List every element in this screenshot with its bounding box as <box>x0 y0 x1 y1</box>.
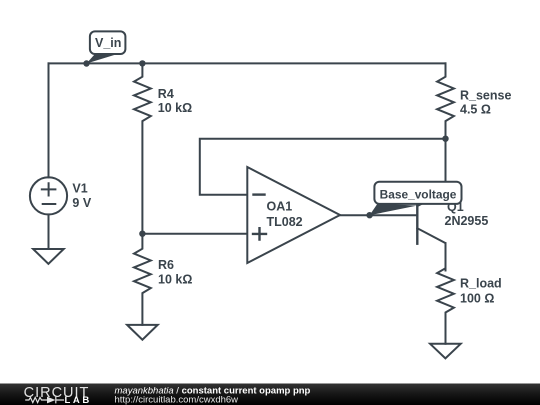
svg-text:4.5 Ω: 4.5 Ω <box>460 103 491 117</box>
ground under V1 <box>33 249 64 264</box>
wire feedback loop <box>200 139 446 195</box>
Q1 base bar <box>416 206 418 244</box>
resistor R6 <box>134 234 192 325</box>
node junction R4 top <box>139 60 145 66</box>
svg-text:10 kΩ: 10 kΩ <box>158 273 192 287</box>
op-amp inverting input mark <box>254 193 265 195</box>
svg-text:R4: R4 <box>158 87 174 101</box>
wire top net V_in <box>49 62 446 64</box>
svg-text:10 kΩ: 10 kΩ <box>158 101 192 115</box>
svg-text:http://circuitlab.com/cwxdh6w: http://circuitlab.com/cwxdh6w <box>115 394 239 405</box>
V_in label pointer <box>87 53 118 63</box>
svg-text:R_load: R_load <box>460 277 502 291</box>
svg-text:R_sense: R_sense <box>460 88 511 102</box>
V1 plus minus marks <box>42 183 56 204</box>
svg-text:OA1: OA1 <box>267 200 293 214</box>
node junction plus input <box>139 231 145 237</box>
Base_voltage label pointer <box>370 204 417 216</box>
wire left V1 top <box>48 63 50 177</box>
wire V1 to ground <box>48 214 50 249</box>
voltage source V1 <box>30 177 92 214</box>
wire plus input <box>142 233 247 235</box>
svg-text:Base_voltage: Base_voltage <box>380 187 457 201</box>
svg-text:100 Ω: 100 Ω <box>460 292 494 306</box>
svg-text:9 V: 9 V <box>72 196 91 210</box>
transistor Q1 <box>417 192 488 271</box>
CircuitLab logo symbol <box>25 397 64 404</box>
op-amp OA1 <box>247 167 340 263</box>
ground under R6 <box>127 325 158 340</box>
svg-text:V_in: V_in <box>95 36 121 50</box>
svg-text:V1: V1 <box>72 181 87 195</box>
Q1 collector diagonal and lead <box>417 228 445 270</box>
net label Base_voltage <box>370 182 462 216</box>
svg-text:TL082: TL082 <box>267 215 303 229</box>
op-amp non-inverting input mark <box>253 228 266 239</box>
svg-text:R6: R6 <box>158 258 174 272</box>
node junction R_sense bottom <box>442 136 448 142</box>
footer bar <box>0 384 540 405</box>
svg-text:2N2955: 2N2955 <box>445 214 489 228</box>
node Base_voltage label dot <box>366 212 372 218</box>
ground under R_load <box>430 344 461 359</box>
wire op-amp output to base <box>340 214 417 216</box>
net label V_in <box>87 31 126 63</box>
resistor R_load <box>437 243 502 344</box>
wire emitter from R_sense junction <box>445 139 447 183</box>
svg-text:LAB: LAB <box>65 395 92 405</box>
resistor R_sense <box>437 63 511 138</box>
resistor R4 <box>134 63 192 233</box>
node V_in label dot <box>83 60 89 66</box>
Q1 emitter diagonal (hidden behind label) <box>417 192 445 207</box>
